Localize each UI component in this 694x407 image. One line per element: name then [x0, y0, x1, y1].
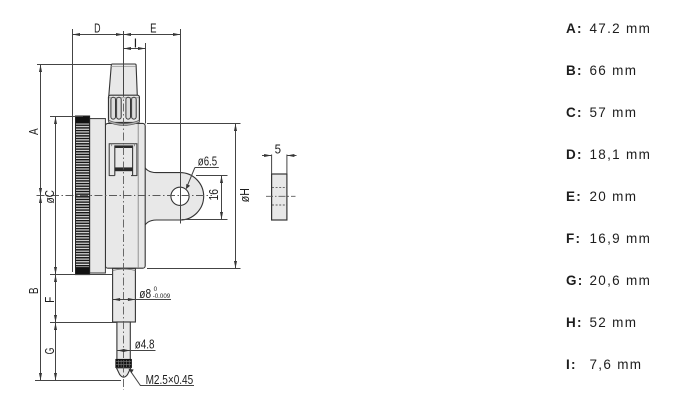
dim F	[50, 275, 113, 323]
contact point knurled grip	[116, 359, 132, 368]
dim ø8 with tolerance	[113, 299, 171, 301]
top cap (stem top)	[109, 64, 138, 96]
dim I	[124, 43, 146, 124]
crown (knurled knob)	[109, 95, 140, 125]
dim ø4.8	[117, 350, 156, 352]
dim øC	[50, 116, 83, 275]
plunger (spindle) ø4.8	[117, 322, 130, 360]
dim D	[73, 29, 124, 272]
bezel clamp	[109, 144, 137, 176]
bezel side face	[90, 119, 106, 273]
stem ø8	[113, 268, 136, 322]
dim 5 (side view)	[262, 155, 297, 175]
dim øH	[147, 124, 241, 269]
knurled bezel rim	[76, 116, 90, 275]
dim B	[40, 196, 42, 381]
horizontal centerline	[37, 195, 213, 197]
dim G	[35, 323, 121, 381]
case (main body)	[105, 123, 145, 268]
contact point tip	[116, 368, 130, 377]
leader ø6.5	[187, 168, 219, 187]
dim E	[124, 29, 181, 224]
lug (mounting ear)	[143, 164, 204, 230]
hole ø6.5 in lug	[171, 187, 189, 205]
vertical centerline	[123, 31, 125, 390]
dim A	[37, 65, 111, 196]
dim 16	[182, 176, 228, 220]
leader M2.5x0.45	[131, 371, 194, 385]
